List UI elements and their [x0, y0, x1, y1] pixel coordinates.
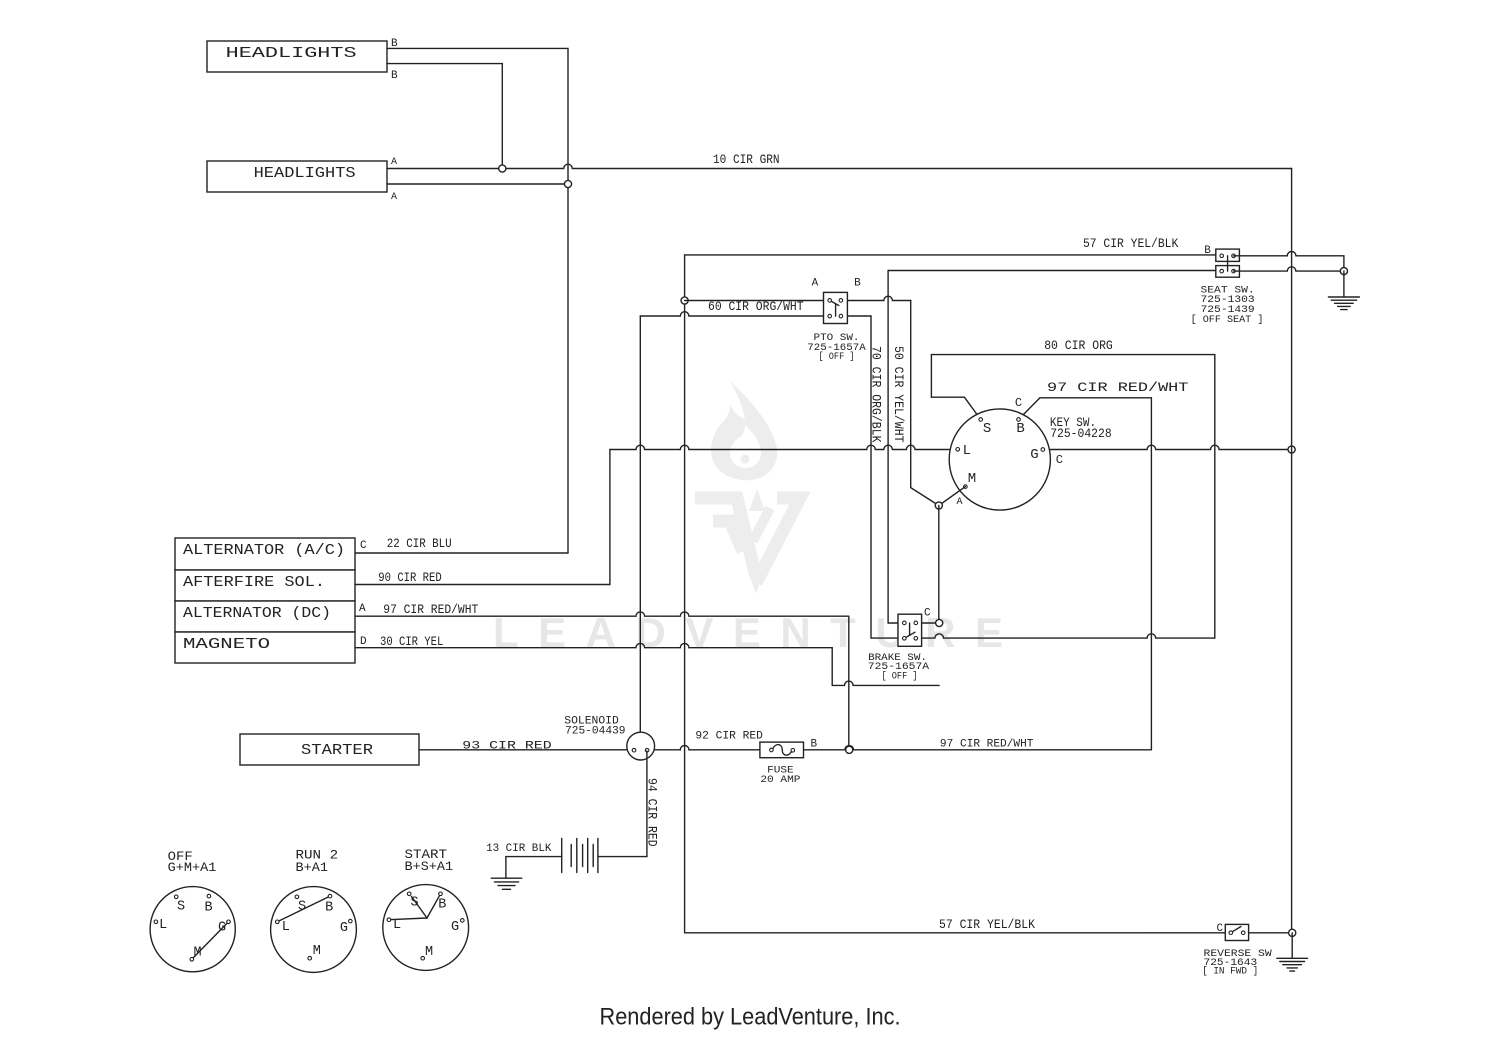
node reverse ground [1289, 929, 1296, 936]
wire 30 CIR YEL from magneto [355, 643, 832, 647]
svg-text:725-04228: 725-04228 [1050, 427, 1112, 441]
wire vertical to 22 CIR BLU node [567, 48, 569, 184]
wire 90 CIR RED vertical [609, 450, 611, 585]
battery [562, 839, 598, 873]
wire 30 CIR YEL vertical [831, 648, 833, 686]
svg-text:STARTER: STARTER [301, 742, 373, 759]
starter box [240, 734, 419, 765]
svg-text:20 AMP: 20 AMP [760, 774, 800, 786]
wire key M to node A [939, 487, 966, 506]
wire seat top to ground [1234, 252, 1344, 256]
alternator (A/C) box [175, 538, 355, 570]
wire 30 CIR YEL to brake common [832, 681, 939, 685]
svg-text:HEADLIGHTS: HEADLIGHTS [254, 165, 356, 182]
svg-text:A: A [359, 603, 366, 615]
svg-text:MAGNETO: MAGNETO [183, 636, 270, 653]
magneto box [175, 632, 355, 663]
wire 50 CIR YEL/WHT into brake [888, 622, 904, 624]
svg-text:B: B [438, 897, 446, 912]
svg-text:G: G [1030, 447, 1038, 463]
svg-text:A: A [957, 497, 963, 508]
svg-text:93 CIR RED: 93 CIR RED [462, 741, 552, 753]
svg-text:S: S [298, 899, 306, 914]
wire 80 CIR ORG right vertical [1214, 355, 1216, 638]
wire 70 CIR ORG/BLK into brake [871, 637, 904, 639]
svg-text:S: S [983, 421, 991, 437]
svg-text:L: L [963, 443, 971, 459]
svg-text:HEADLIGHTS: HEADLIGHTS [226, 45, 357, 62]
svg-text:B: B [854, 277, 861, 289]
wire vertical ground-side bus [684, 255, 686, 933]
svg-text:M: M [193, 946, 201, 961]
svg-text:13 CIR BLK: 13 CIR BLK [486, 843, 552, 855]
svg-text:A: A [812, 277, 819, 289]
headlights box 2 [207, 161, 387, 192]
wire seat bottom to ground [1234, 267, 1344, 271]
wire 97 CIR RED/WHT fuse to key [804, 746, 1152, 750]
svg-text:B: B [811, 738, 818, 750]
node junction 10 CIR GRN [499, 165, 506, 172]
svg-text:G: G [451, 920, 459, 935]
node 60 CIR ORG/WHT junction [681, 297, 688, 304]
wire 10 CIR GRN [387, 164, 1292, 168]
svg-text:30 CIR YEL: 30 CIR YEL [380, 635, 443, 649]
svg-text:B: B [391, 38, 398, 50]
svg-text:[ OFF SEAT ]: [ OFF SEAT ] [1191, 314, 1264, 326]
wire 50 CIR YEL/WHT vertical [887, 271, 889, 624]
wire headlight1 pin B bottom [387, 63, 502, 65]
svg-text:Rendered by LeadVenture, Inc.: Rendered by LeadVenture, Inc. [600, 1004, 901, 1031]
svg-text:B+A1: B+A1 [296, 860, 329, 875]
svg-text:AFTERFIRE SOL.: AFTERFIRE SOL. [183, 574, 325, 591]
svg-text:D: D [360, 636, 367, 648]
wire 22 CIR BLU vertical [567, 184, 569, 553]
svg-text:A: A [391, 157, 397, 168]
svg-text:M: M [425, 945, 433, 960]
svg-text:725-04439: 725-04439 [565, 725, 626, 737]
svg-text:80 CIR ORG: 80 CIR ORG [1044, 339, 1113, 353]
wire reverse to ground node [1249, 932, 1293, 934]
brake switch 725-1657A [898, 614, 922, 646]
svg-text:C: C [1056, 453, 1063, 467]
reverse switch 725-1643 [1225, 924, 1248, 940]
wire PTO B vertical [910, 301, 912, 488]
PTO switch 725-1657A [824, 292, 848, 323]
svg-text:C: C [924, 608, 931, 620]
wire battery positive [598, 856, 647, 858]
node A [935, 502, 942, 509]
svg-text:ALTERNATOR (A/C): ALTERNATOR (A/C) [183, 542, 345, 559]
wire headlight1 pin B top [387, 47, 568, 49]
wire 97 CIR RED/WHT vertical to fuse node [848, 616, 850, 749]
wire PTO B to key M path [841, 296, 911, 300]
wire node A to brake common [938, 506, 940, 624]
wire brake to 80 CIR ORG [916, 634, 1215, 638]
svg-text:S: S [177, 900, 185, 915]
wire 92 CIR RED solenoid to fuse [655, 746, 760, 750]
svg-text:97 CIR RED/WHT: 97 CIR RED/WHT [1047, 381, 1189, 395]
ground (reverse switch) [1277, 958, 1308, 971]
svg-text:70 CIR ORG/BLK: 70 CIR ORG/BLK [869, 346, 883, 443]
node junction 22 CIR BLU [564, 180, 571, 187]
wire 80 CIR ORG top [931, 354, 1214, 356]
wire 57 CIR YEL/BLK bottom [685, 932, 1226, 934]
svg-text:L: L [282, 920, 290, 935]
svg-text:M: M [313, 944, 321, 959]
svg-text:G+M+A1: G+M+A1 [168, 860, 217, 875]
wire 57 CIR YEL/BLK to seat top [685, 254, 1222, 256]
svg-text:B: B [325, 900, 333, 915]
wire 90 CIR RED horizontal [355, 584, 610, 586]
key position circle RUN 2 (L+B contact) [271, 887, 357, 973]
wire vertical to 10 CIR GRN node [501, 64, 503, 169]
svg-text:[ OFF ]: [ OFF ] [882, 671, 918, 683]
afterfire sol. box [175, 570, 355, 601]
svg-text:S: S [411, 896, 419, 911]
svg-text:50 CIR YEL/WHT: 50 CIR YEL/WHT [891, 346, 905, 443]
solenoid 725-04439 [627, 732, 655, 760]
svg-text:10 CIR GRN: 10 CIR GRN [713, 153, 780, 167]
wire to seat ground symbol [1343, 271, 1345, 297]
node C (brake) [936, 619, 943, 626]
svg-text:M: M [968, 471, 976, 487]
key switch 725-04228 [949, 409, 1050, 510]
seat switch 725-1303 / 725-1439 [1216, 249, 1240, 277]
svg-text:C: C [1015, 396, 1022, 410]
wire diagonal to node A [911, 488, 939, 506]
node seat ground [1340, 268, 1347, 275]
svg-text:B: B [204, 901, 212, 916]
ground (battery) [491, 878, 521, 889]
wire brake C to node [916, 622, 939, 624]
wire seat right vertical [1343, 256, 1345, 271]
wire 60 CIR ORG/WHT lower to PTO [640, 312, 829, 316]
wire 13 CIR BLK battery negative [506, 856, 562, 858]
key position circle START (L+S+B contact) [383, 885, 469, 971]
svg-text:L: L [159, 918, 167, 933]
wire 60 CIR ORG/WHT [685, 300, 830, 302]
svg-text:B: B [1016, 421, 1024, 437]
svg-text:97 CIR RED/WHT: 97 CIR RED/WHT [940, 738, 1034, 750]
svg-text:B: B [1204, 245, 1211, 257]
svg-text:L: L [393, 918, 401, 933]
wire to battery ground [505, 857, 507, 879]
fuse 20 AMP [760, 742, 804, 758]
svg-text:ALTERNATOR (DC): ALTERNATOR (DC) [183, 605, 331, 622]
wire diagonal to key S [964, 397, 980, 419]
wire to reverse ground symbol [1291, 933, 1293, 959]
wire 94 CIR RED vertical [646, 751, 648, 857]
wire headlight2 pin A bottom [387, 183, 568, 185]
svg-text:C: C [360, 540, 367, 552]
wire diagonal from key B [1019, 398, 1041, 420]
wire 22 CIR BLU horizontal [355, 552, 568, 554]
svg-text:22 CIR BLU: 22 CIR BLU [387, 537, 452, 551]
svg-text:57 CIR YEL/BLK: 57 CIR YEL/BLK [1083, 237, 1179, 251]
svg-text:90 CIR RED: 90 CIR RED [378, 571, 441, 585]
alternator (DC) box [175, 601, 355, 632]
wire 97 CIR RED/WHT vertical [1150, 398, 1152, 750]
svg-text:57 CIR YEL/BLK: 57 CIR YEL/BLK [939, 918, 1035, 932]
wire 80 CIR ORG left vertical [930, 355, 932, 398]
svg-text:60 CIR ORG/WHT: 60 CIR ORG/WHT [708, 300, 804, 314]
key position circle OFF (G+M contact) [150, 887, 235, 972]
wire ground bus vertical right [1291, 169, 1293, 933]
wire key G to ground bus [1043, 445, 1292, 449]
headlights box 1 [207, 41, 387, 72]
wire 70 CIR ORG/BLK vertical [870, 316, 872, 638]
watermark group (decorative) [493, 380, 1003, 656]
wire 93 CIR RED starter to solenoid [419, 749, 627, 751]
svg-text:94 CIR RED: 94 CIR RED [645, 778, 659, 847]
node G wire to ground bus [1288, 446, 1295, 453]
wire 50 CIR YEL/WHT to seat bottom [888, 270, 1222, 272]
svg-text:[ OFF ]: [ OFF ] [819, 351, 855, 363]
ground (seat switch) [1328, 297, 1359, 310]
svg-text:B: B [391, 70, 398, 82]
svg-text:92 CIR RED: 92 CIR RED [695, 731, 763, 743]
wire 80 CIR ORG short horizontal [931, 396, 964, 398]
wire 97 CIR RED/WHT from alternator DC [355, 612, 849, 616]
wire 70 CIR ORG/BLK horizontal [841, 315, 871, 317]
svg-text:[ IN FWD ]: [ IN FWD ] [1202, 965, 1258, 977]
svg-text:A: A [391, 192, 397, 203]
svg-text:G: G [340, 921, 348, 936]
wire vertical PTO to solenoid [639, 316, 641, 732]
wire key L to 90 CIR RED [610, 445, 958, 449]
svg-text:97 CIR RED/WHT: 97 CIR RED/WHT [383, 603, 478, 617]
wire 97 CIR RED/WHT key B [1040, 397, 1151, 399]
svg-text:C: C [1217, 923, 1224, 935]
node fuse B junction [846, 746, 853, 753]
svg-text:G: G [218, 921, 226, 936]
svg-text:B+S+A1: B+S+A1 [405, 859, 454, 874]
